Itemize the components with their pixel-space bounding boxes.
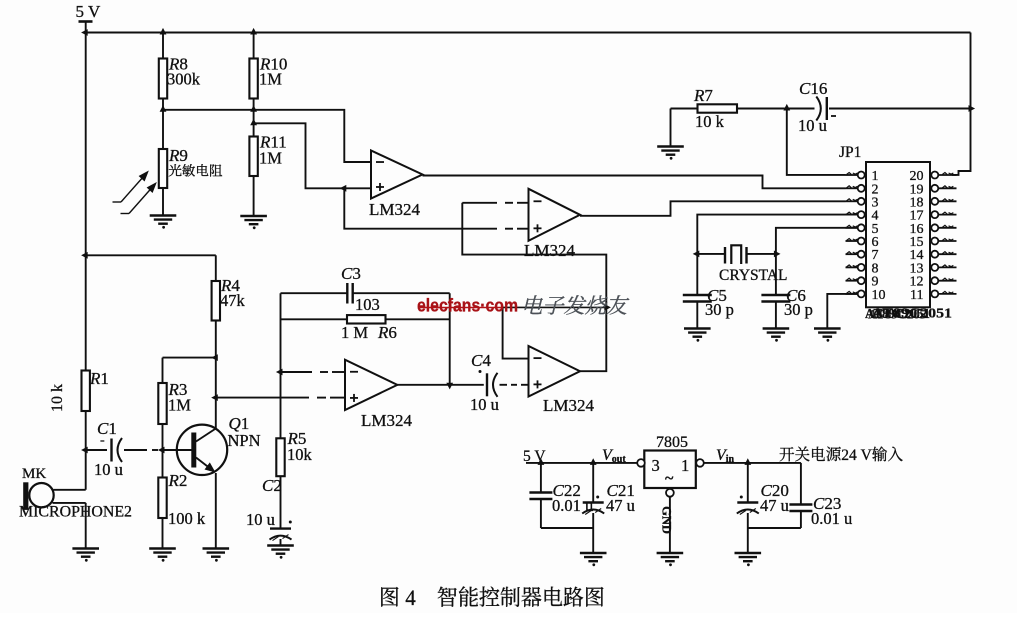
- wire dash base: [152, 449, 158, 451]
- wire 7805 GND pin to ground: [669, 497, 671, 553]
- node C20 tap: [744, 458, 751, 465]
- wire JP1 pin10 to ground: [827, 294, 857, 329]
- resistor R3: [158, 383, 166, 424]
- wire JP1 pin4 to crystal/C5: [697, 215, 857, 295]
- svg-text:100 k: 100 k: [168, 509, 206, 528]
- wire JP1 pin5 to crystal/C6: [776, 228, 858, 295]
- JP1 pin 15 pad: [931, 238, 938, 245]
- ground C20: [735, 553, 762, 561]
- microphone MK: [23, 482, 28, 510]
- wire U1C minus entry: [332, 371, 345, 373]
- JP1 pin 4 pad: [858, 211, 865, 218]
- svg-text:7805: 7805: [656, 434, 688, 451]
- svg-text:C16: C16: [799, 79, 827, 98]
- wire dash U1C plus: [317, 397, 326, 399]
- svg-text:11: 11: [910, 288, 923, 303]
- svg-text:CRYSTAL: CRYSTAL: [719, 267, 788, 284]
- svg-text:LM324: LM324: [543, 396, 595, 415]
- wire left rail upper: [85, 33, 87, 371]
- resistor R10: [249, 59, 257, 99]
- svg-text:AT89C205: AT89C205: [868, 307, 926, 322]
- JP1 pin 7 pad: [858, 251, 865, 258]
- JP1 pin 5 pad: [858, 224, 865, 231]
- node R11 top junction: [250, 119, 257, 126]
- wire U1C minus: [281, 371, 313, 373]
- svg-text:1M: 1M: [168, 396, 191, 415]
- wire U1B minus entry: [517, 202, 529, 204]
- ground R9: [150, 216, 177, 224]
- node R10 bottom junction: [250, 105, 257, 112]
- svg-text:103: 103: [355, 295, 380, 314]
- svg-text:10 k: 10 k: [49, 384, 66, 412]
- wire 5V stem: [85, 22, 87, 33]
- wire R8 to R9: [162, 99, 164, 150]
- JP1 pin 19 stub: [938, 187, 956, 189]
- JP1 pin 9 stub: [846, 280, 858, 282]
- wire C4 to U1D plus: [521, 384, 529, 386]
- capacitor C22: [529, 491, 552, 494]
- node base junction: [158, 447, 165, 454]
- node C22 tap: [538, 458, 545, 465]
- svg-text:0.01 u: 0.01 u: [811, 509, 852, 528]
- wire U1B minus feedback loop: [462, 203, 606, 308]
- wire U1D output up: [580, 307, 606, 371]
- JP1 pin 15 stub: [938, 240, 956, 242]
- transistor Q1: [177, 425, 227, 475]
- wire R11 to ground: [253, 176, 255, 216]
- svg-text:30 p: 30 p: [784, 300, 813, 319]
- node feedback-output junction: [446, 383, 453, 390]
- svg-text:10 u: 10 u: [798, 116, 827, 135]
- node rail-R4 junction: [81, 252, 88, 259]
- wire to Q1 base: [162, 449, 192, 451]
- wire U1A output to JP1 pin2: [423, 176, 846, 189]
- wire top 5V rail: [86, 32, 971, 34]
- svg-text:1: 1: [681, 456, 689, 475]
- JP1 pin 2 stub: [846, 187, 858, 189]
- wire R4 to Q1 collector: [215, 321, 217, 429]
- JP1 pin 14 stub: [938, 253, 956, 255]
- svg-text:10k: 10k: [287, 445, 313, 464]
- node 5V rail left junction: [81, 29, 88, 36]
- JP1 pin 11 pad: [931, 290, 938, 297]
- svg-text:47 u: 47 u: [606, 496, 635, 515]
- wire to C22: [540, 463, 542, 493]
- capacitor C1: [110, 439, 112, 462]
- node R7-C16-pin1 junction: [783, 104, 790, 111]
- wire to R6: [281, 318, 348, 320]
- JP1 pin 10 stub: [846, 293, 858, 295]
- wire R10 to R11: [253, 99, 255, 137]
- ground C2: [267, 546, 294, 554]
- capacitor C23: [789, 503, 812, 506]
- wire left rail lower: [85, 411, 87, 490]
- resistor R7: [698, 104, 738, 112]
- capacitor C4: [486, 373, 488, 396]
- svg-text:10 k: 10 k: [695, 112, 725, 131]
- wire R11 node to U1A non-inverting input: [254, 123, 371, 188]
- svg-text:C3: C3: [341, 264, 361, 283]
- ground mic: [72, 549, 99, 557]
- node U1C minus junction: [276, 369, 283, 376]
- capacitor C16: [826, 97, 828, 120]
- node crystal right junction: [774, 251, 781, 258]
- wire C5 to ground: [696, 301, 698, 329]
- wire rail to R10: [253, 33, 255, 59]
- wire R6 right: [386, 318, 450, 320]
- svg-text:R1: R1: [89, 369, 109, 388]
- JP1 pin 6 pad: [858, 238, 865, 245]
- JP1 pin 3 pad: [858, 198, 865, 205]
- node R3 tap: [211, 354, 218, 361]
- JP1 pin 13 pad: [931, 264, 938, 271]
- wire C22-C21 bottom: [541, 527, 593, 529]
- wire dash U1B plus: [505, 228, 513, 230]
- wire dash U1C minus: [320, 371, 328, 373]
- wire R7 left to ground: [670, 109, 672, 147]
- wire C2 to ground: [280, 539, 282, 546]
- svg-text:R2: R2: [168, 471, 188, 490]
- JP1 pin 7 stub: [846, 253, 858, 255]
- wire mic to ground: [85, 503, 87, 549]
- wire U1C output to C4: [397, 384, 484, 386]
- JP1 pin 16 pad: [931, 224, 938, 231]
- wire top rail down to JP1 pin20: [952, 33, 971, 175]
- ground C5: [684, 329, 711, 337]
- wire R5 to C2: [280, 476, 282, 528]
- resistor R1: [82, 371, 90, 412]
- node crystal left junction: [693, 251, 700, 258]
- svg-text:图 4 智能控制器电路图: 图 4 智能控制器电路图: [379, 581, 605, 612]
- wire U1C plus entry: [330, 397, 345, 399]
- resistor R5: [276, 438, 284, 476]
- node collector/plus-wire tap: [211, 394, 218, 401]
- svg-text:C2: C2: [262, 476, 282, 495]
- svg-text:10 u: 10 u: [246, 510, 275, 529]
- wire 5V to 7805 pin3: [526, 462, 637, 464]
- node U1D feedback junction: [604, 304, 611, 311]
- svg-text:1 M: 1 M: [341, 323, 368, 342]
- wire R7 to C16: [737, 108, 815, 110]
- JP1 pin 18 pad: [931, 198, 938, 205]
- svg-text:NPN: NPN: [228, 431, 261, 450]
- JP1 pin 1 stub: [846, 174, 858, 176]
- svg-text:JP1: JP1: [839, 144, 861, 161]
- wire to C3: [281, 292, 348, 294]
- JP1 pin 5 stub: [846, 227, 858, 229]
- JP1 pin 17 stub: [938, 214, 956, 216]
- wire C20-C23 bottom: [748, 527, 801, 529]
- JP1 pin 4 stub: [846, 214, 858, 216]
- svg-text:MICROPHONE2: MICROPHONE2: [19, 504, 132, 521]
- JP1 pin 14 pad: [931, 251, 938, 258]
- wire C6 to ground: [775, 301, 777, 329]
- svg-text:LM324: LM324: [524, 241, 576, 260]
- node rail R10 tap: [250, 28, 257, 35]
- wire C21 bottom to ground: [592, 513, 594, 553]
- svg-text:5 V: 5 V: [76, 2, 101, 21]
- wire C23 bottom: [800, 511, 802, 529]
- svg-text:47 u: 47 u: [760, 496, 789, 515]
- svg-text:10 u: 10 u: [470, 395, 499, 414]
- JP1 pin 6 stub: [846, 240, 858, 242]
- JP1 pin 12 pad: [931, 277, 938, 284]
- wire C3/R6 right vertical to U1C output: [449, 293, 451, 385]
- JP1 pin 9 pad: [858, 277, 865, 284]
- wire C20 bottom to ground: [747, 513, 749, 553]
- wire U1B output to JP1 pin3: [580, 201, 846, 216]
- svg-text:1M: 1M: [259, 149, 282, 168]
- wire R3 to R2: [162, 424, 164, 478]
- svg-text:LM324: LM324: [361, 411, 413, 430]
- JP1 pin 16 stub: [938, 227, 956, 229]
- JP1 pin 20 stub: [938, 174, 956, 176]
- svg-text:elecfans·com: elecfans·com: [417, 295, 518, 316]
- capacitor C6: [761, 294, 790, 297]
- wire U1D feedback top: [503, 306, 607, 308]
- resistor R9 photoresistor: [159, 149, 167, 188]
- wire R8/R10 node to U1A inverting input: [163, 110, 371, 162]
- JP1 pin 8 stub: [846, 266, 858, 268]
- wire R2 to ground: [162, 518, 164, 549]
- wire R3 top: [163, 357, 216, 359]
- JP1 pin 18 stub: [938, 200, 956, 202]
- JP1 pin 19 pad: [931, 185, 938, 192]
- wire U1A plus node down to U1B plus input: [344, 188, 497, 228]
- JP1 pin 12 stub: [938, 280, 956, 282]
- svg-text:3: 3: [652, 456, 660, 475]
- ground Q1 emitter: [203, 549, 230, 557]
- wire C1 right: [124, 449, 147, 451]
- JP1 pin 8 pad: [858, 264, 865, 271]
- svg-text:C4: C4: [471, 351, 491, 370]
- resistor R8: [159, 59, 167, 99]
- svg-text:LM324: LM324: [369, 200, 421, 219]
- R9 light arrows: [113, 172, 156, 214]
- svg-text:10 u: 10 u: [94, 460, 123, 479]
- JP1 pin 11 stub: [938, 293, 956, 295]
- ground pin10: [814, 329, 841, 337]
- resistor R6: [347, 315, 386, 323]
- capacitor C20: [737, 501, 758, 503]
- op-amp U1A LM324: [371, 151, 423, 199]
- wire junction to JP1 pin1: [787, 109, 846, 175]
- resistor R11: [249, 137, 257, 177]
- ground 7805: [657, 553, 684, 561]
- node rail R8 tap: [160, 28, 167, 35]
- wire mic bottom terminal: [53, 502, 86, 504]
- ground R2: [149, 549, 176, 557]
- node C16-VCC junction: [969, 105, 976, 112]
- ground R7: [657, 147, 684, 155]
- wire rail to R4 top: [86, 254, 216, 256]
- wire R9 to ground: [162, 188, 164, 216]
- wire ground to R7: [671, 108, 698, 110]
- wire U1B plus entry: [517, 228, 529, 230]
- node rail-C1 junction: [81, 447, 88, 454]
- wire to R4 top: [215, 255, 217, 281]
- op-amp U1B LM324: [529, 189, 581, 241]
- svg-text:10: 10: [872, 288, 886, 303]
- wire to C23: [800, 463, 802, 505]
- wire mic top terminal: [54, 489, 86, 491]
- capacitor C2: [270, 527, 291, 529]
- wire U1D minus loop left: [503, 307, 529, 358]
- svg-text:30 p: 30 p: [705, 300, 734, 319]
- capacitor C5: [683, 294, 712, 297]
- JP1 pin 17 pad: [931, 211, 938, 218]
- resistor R4: [212, 281, 220, 321]
- wire rail to C1: [86, 449, 107, 451]
- svg-text:电子发烧友: 电子发烧友: [521, 290, 630, 320]
- svg-text:47k: 47k: [220, 291, 246, 310]
- ground R11: [240, 216, 267, 224]
- ground C6: [763, 329, 790, 337]
- capacitor C3: [346, 283, 348, 304]
- node C21 tap: [590, 458, 597, 465]
- svg-text:0.01 u: 0.01 u: [552, 496, 593, 515]
- wire dash U1B minus: [505, 202, 513, 204]
- JP1 pin 1 pad: [858, 172, 865, 179]
- svg-text:MK: MK: [22, 466, 46, 482]
- ground C21/C22: [580, 553, 607, 561]
- svg-text:~: ~: [665, 470, 674, 487]
- node U1A plus branch junction: [340, 185, 347, 192]
- op-amp U1D LM324: [529, 346, 581, 397]
- wire C22 bottom: [540, 499, 542, 528]
- wire U1B minus: [462, 202, 497, 204]
- wire crystal right: [747, 253, 776, 255]
- JP1 pin 20 pad: [931, 172, 938, 179]
- wire R3 top stem: [162, 358, 164, 383]
- resistor R2: [158, 478, 166, 519]
- svg-text:-: -: [100, 433, 105, 448]
- wire collector node to U1C non-inverting input: [216, 397, 309, 399]
- svg-text:R6: R6: [377, 323, 397, 342]
- wire C3 right: [353, 292, 450, 294]
- svg-text:GND: GND: [660, 506, 674, 534]
- wire C3/R6 left vertical down to R5: [280, 293, 282, 438]
- capacitor C21: [583, 501, 604, 503]
- wire 7805 pin1 to input: [704, 462, 801, 464]
- svg-text:R7: R7: [693, 86, 713, 105]
- svg-text:开关电源24 V输入: 开关电源24 V输入: [779, 442, 903, 465]
- JP1 pin 13 stub: [938, 266, 956, 268]
- node R8-R9 junction: [160, 105, 167, 112]
- svg-text:1M: 1M: [259, 70, 282, 89]
- power bar 5V: [79, 20, 93, 23]
- wire C16 to VCC vertical: [829, 108, 971, 110]
- JP1 pin 10 pad: [858, 290, 865, 297]
- wire crystal left: [697, 253, 725, 255]
- JP1 pin 3 stub: [846, 200, 858, 202]
- JP1 pin 2 pad: [858, 185, 865, 192]
- svg-text:光敏电阻: 光敏电阻: [169, 160, 223, 180]
- op-amp U1C LM324: [345, 360, 397, 410]
- wire Q1 emitter to ground: [215, 473, 217, 549]
- wire to C21: [592, 463, 594, 503]
- wire to C20: [747, 463, 749, 503]
- wire rail to R8: [162, 33, 164, 59]
- svg-text:300k: 300k: [167, 70, 201, 89]
